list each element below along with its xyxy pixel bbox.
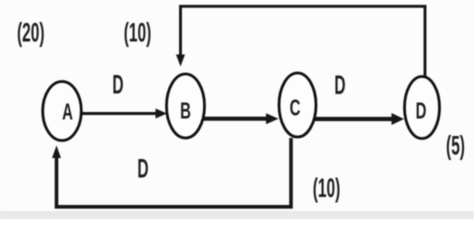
edge C to D: [313, 117, 393, 121]
svg-text:A: A: [62, 99, 73, 125]
bottom artifact band: [0, 211, 474, 219]
svg-text:D: D: [334, 70, 345, 101]
svg-text:D: D: [112, 69, 123, 100]
svg-text:(10): (10): [124, 17, 152, 48]
svg-text:(5): (5): [446, 130, 465, 161]
svg-text:C: C: [290, 95, 301, 121]
svg-text:D: D: [137, 153, 148, 184]
svg-text:B: B: [180, 98, 191, 124]
node B: [167, 74, 205, 138]
svg-text:D: D: [416, 98, 427, 124]
arrowhead into B top: [176, 55, 185, 67]
edge B to C: [201, 117, 268, 121]
svg-text:(10): (10): [313, 173, 341, 204]
edge A to B: [80, 112, 158, 115]
node C: [279, 73, 316, 137]
node D: [405, 77, 440, 139]
node A: [43, 82, 82, 141]
wire top loop D to B: [181, 6, 426, 76]
wire bottom loop C to A: [57, 138, 292, 207]
svg-text:(20): (20): [17, 17, 45, 48]
arrowhead into A bottom: [52, 146, 61, 159]
